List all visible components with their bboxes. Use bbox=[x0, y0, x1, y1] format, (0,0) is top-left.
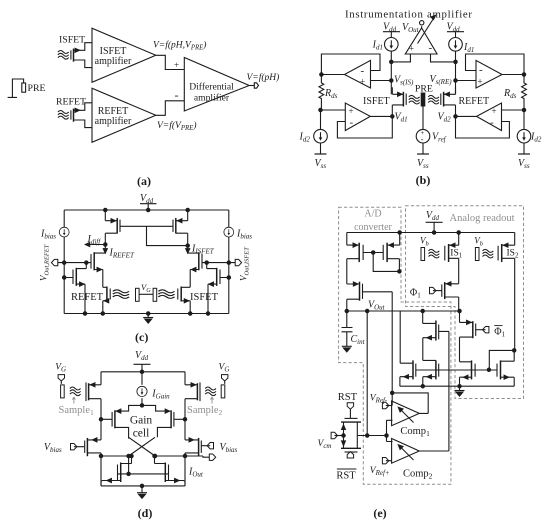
VOut rail bbox=[347, 310, 460, 312]
A/D converter dashed outline bbox=[339, 207, 451, 484]
svg-text:+: + bbox=[349, 106, 354, 116]
svg-text:REFET: REFET bbox=[459, 96, 490, 107]
svg-text:Sample2: Sample2 bbox=[187, 405, 223, 417]
gate long vertical to comparator bbox=[391, 292, 393, 406]
current source Id1 right bbox=[449, 38, 463, 52]
VRef+ input bbox=[382, 458, 388, 464]
svg-text:RST: RST bbox=[336, 471, 356, 482]
Vdd bbox=[134, 364, 151, 372]
left rail to Id2 bbox=[319, 108, 322, 111]
svg-text:Sample1: Sample1 bbox=[59, 405, 95, 417]
gain cell top wiring bbox=[116, 405, 169, 411]
VOut,REFET terminal bbox=[51, 259, 57, 265]
diode connect vertical bbox=[128, 456, 130, 474]
left Vbias FET bbox=[71, 438, 102, 456]
left VG electrode bbox=[58, 375, 64, 381]
svg-text:REFET: REFET bbox=[71, 292, 104, 303]
annotation arrow through amp bbox=[418, 19, 434, 44]
VOut wire right bbox=[202, 262, 235, 264]
svg-text:-: - bbox=[421, 135, 424, 144]
svg-text:(d): (d) bbox=[138, 506, 153, 520]
wire + junction bbox=[390, 51, 392, 94]
differential amplifier triangle bbox=[184, 58, 249, 112]
IS2 line corner to gate rail bbox=[489, 350, 514, 369]
svg-text:+: + bbox=[360, 77, 365, 87]
svg-text:ISFET: ISFET bbox=[190, 292, 219, 303]
svg-text:+: + bbox=[174, 60, 179, 70]
svg-text:Analog readout: Analog readout bbox=[450, 213, 515, 224]
svg-text:+: + bbox=[409, 44, 414, 54]
svg-text:-: - bbox=[429, 42, 433, 54]
svg-text:cell: cell bbox=[133, 428, 150, 440]
top rail bbox=[101, 371, 185, 373]
Comp2 output bbox=[419, 450, 449, 452]
svg-text:Instrumentation amplifier: Instrumentation amplifier bbox=[345, 9, 472, 21]
M_A NMOS (below VOut) bbox=[423, 311, 449, 360]
right VG electrode bbox=[222, 375, 228, 381]
right Ibias current source bbox=[228, 210, 230, 228]
node wires + IOut bbox=[101, 456, 209, 457]
svg-text:amplifier: amplifier bbox=[194, 93, 230, 104]
left Ibias current source bbox=[63, 210, 65, 228]
Cint bbox=[342, 311, 353, 346]
svg-text:amplifier: amplifier bbox=[95, 116, 132, 127]
VG electrodes (c) bbox=[136, 288, 140, 301]
top rail bbox=[64, 209, 229, 211]
Rds left bbox=[319, 75, 324, 109]
top rail bbox=[347, 232, 515, 234]
right mirror NMOS bbox=[153, 454, 185, 486]
A/D PMOS2 bbox=[383, 231, 401, 272]
svg-text:A/D: A/D bbox=[364, 209, 381, 220]
svg-text:(a): (a) bbox=[137, 174, 151, 188]
A/D NMOS bbox=[347, 282, 392, 311]
svg-text:Differential: Differential bbox=[189, 82, 234, 93]
svg-text:V=f(pH): V=f(pH) bbox=[247, 72, 280, 83]
instr amp input stubs bbox=[391, 54, 455, 62]
right lower NMOS bbox=[206, 263, 229, 316]
left gain NMOS bbox=[99, 410, 128, 438]
PRE electrode bbox=[8, 79, 26, 97]
ISFET amplifier triangle bbox=[92, 28, 156, 82]
svg-text:+: + bbox=[478, 77, 483, 87]
switch output wire bbox=[357, 435, 386, 437]
IISFET down arrow on right drain bbox=[187, 246, 189, 254]
IS2 bbox=[475, 233, 514, 351]
lower-left opamp bbox=[345, 103, 370, 131]
Phi1 PMOS bbox=[430, 282, 459, 311]
Vcm input bbox=[331, 432, 337, 438]
svg-text:(c): (c) bbox=[135, 330, 148, 344]
REFET (c) bbox=[101, 287, 129, 316]
ISFET (c) bbox=[158, 287, 192, 316]
comparator input stubs bbox=[387, 420, 393, 441]
left PMOS (c) bbox=[104, 208, 120, 244]
VRef- input bbox=[382, 402, 388, 408]
left rail segments bbox=[101, 419, 185, 486]
REFET (b) bbox=[428, 87, 455, 116]
RST switch (transmission gate) bbox=[341, 403, 361, 458]
left Vdd bar bbox=[383, 32, 400, 38]
wire ISFET amp out to diff amp + input bbox=[156, 55, 185, 69]
svg-text:PRE: PRE bbox=[415, 84, 433, 95]
svg-text:amplifier: amplifier bbox=[95, 56, 132, 67]
mirror gate rail bbox=[118, 473, 169, 475]
VOut,ISFET terminal bbox=[235, 259, 241, 265]
right cascode NMOS bbox=[188, 252, 202, 287]
VOut long vertical to comparators bbox=[366, 311, 368, 436]
svg-text:-: - bbox=[479, 64, 483, 76]
REFET amplifier triangle bbox=[92, 88, 156, 142]
svg-text:-: - bbox=[175, 88, 179, 102]
NMOS2 (cluster) bbox=[421, 360, 439, 388]
REFET transistor (a) bbox=[58, 103, 92, 128]
ISFET transistor (a) bbox=[58, 43, 92, 68]
A/D PMOS1 bbox=[347, 233, 363, 285]
left sampling ISFET bbox=[70, 372, 101, 420]
right gain NMOS bbox=[157, 410, 186, 437]
PRE electrode (b) bbox=[421, 93, 425, 106]
NMOS4 (cluster) bbox=[497, 349, 516, 387]
current source Id1 left bbox=[385, 38, 399, 52]
Rds right bbox=[522, 75, 527, 109]
lower-right opamp bbox=[477, 103, 502, 131]
IGain current source bbox=[141, 372, 143, 385]
left lower NMOS bbox=[64, 263, 87, 316]
svg-text:Comp1: Comp1 bbox=[400, 426, 430, 438]
svg-text:+: + bbox=[492, 106, 497, 116]
right Vdd bar bbox=[447, 32, 464, 38]
VOut wire left bbox=[58, 262, 91, 264]
Vref source bbox=[416, 129, 430, 143]
svg-text:-: - bbox=[350, 117, 354, 129]
Comp2 gate vertical bbox=[448, 331, 450, 451]
svg-text:(e): (e) bbox=[373, 506, 386, 520]
NMOS1 (cluster) bbox=[400, 311, 416, 386]
wire REFET amp out to diff amp - input bbox=[156, 101, 185, 116]
svg-text:-: - bbox=[361, 65, 365, 77]
NMOS3 (cluster) bbox=[458, 360, 475, 388]
svg-text:-: - bbox=[490, 117, 494, 129]
PMOS gate tie + drain wire bbox=[363, 253, 399, 272]
Comp1 bbox=[392, 401, 420, 426]
svg-text:ISFET: ISFET bbox=[363, 96, 390, 107]
Vdd bbox=[426, 222, 443, 232]
cross-coupling X bbox=[129, 437, 155, 456]
instrumentation amp triangle bbox=[405, 28, 437, 54]
bottom rail + ground bbox=[64, 313, 229, 315]
svg-text:RST: RST bbox=[338, 392, 358, 403]
svg-text:Gain: Gain bbox=[130, 415, 153, 427]
left mirror NMOS bbox=[101, 454, 133, 486]
left cascode NMOS bbox=[91, 252, 105, 287]
upper-right opamp bbox=[476, 60, 502, 88]
ISFET (b) bbox=[392, 87, 419, 116]
ground rail + ground bbox=[400, 385, 514, 387]
Comp2 bbox=[392, 439, 420, 464]
Idiff arrow bbox=[85, 244, 105, 246]
Phi1bar PMOS bbox=[460, 311, 489, 362]
gate rail of cluster bbox=[416, 369, 497, 371]
svg-text:(b): (b) bbox=[416, 173, 431, 187]
IS1 bbox=[421, 231, 460, 284]
svg-text:ISFET: ISFET bbox=[59, 35, 85, 46]
right sampling ISFET bbox=[185, 372, 216, 420]
svg-text:converter: converter bbox=[354, 222, 392, 233]
right Vbias FET bbox=[185, 438, 214, 456]
Vdd bar (c) bbox=[140, 204, 157, 210]
PMOS gate tie + diode connection to right drain bbox=[120, 226, 188, 245]
IREFET down arrow on left drain bbox=[104, 245, 106, 254]
svg-text:REFET: REFET bbox=[56, 97, 86, 108]
svg-text:Comp2: Comp2 bbox=[403, 469, 433, 481]
upper-left opamp bbox=[345, 60, 371, 88]
output wire + open terminal bbox=[249, 85, 254, 87]
Comp1 output + feedback bbox=[392, 393, 428, 414]
Analog readout dashed outline bbox=[406, 206, 524, 399]
right PMOS (c) bbox=[173, 208, 189, 244]
svg-text:PRE: PRE bbox=[28, 83, 46, 94]
bottom rail + ground bbox=[101, 485, 185, 487]
